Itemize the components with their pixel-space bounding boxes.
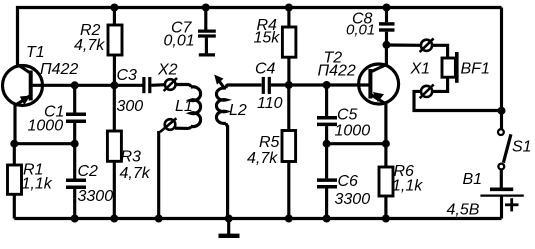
telephone BF1 <box>442 52 457 83</box>
node C7 top <box>202 4 210 12</box>
svg-text:C4: C4 <box>255 61 276 78</box>
node X2 return <box>155 215 163 223</box>
capacitor C5 <box>317 85 337 144</box>
connector X2 pin 1 <box>164 78 177 91</box>
node T2 collector <box>383 41 391 49</box>
node R4 top <box>285 4 293 12</box>
capacitor C7 <box>198 8 216 55</box>
svg-text:R5: R5 <box>259 134 280 151</box>
resistor R6 <box>379 144 393 219</box>
node switch feed <box>498 107 506 115</box>
node R2/R3 <box>110 81 118 89</box>
inductor L1 <box>175 85 201 129</box>
node R5 bottom <box>285 215 293 223</box>
node C6 bottom <box>323 215 331 223</box>
resistor R5 <box>282 85 296 219</box>
svg-text:4,7k: 4,7k <box>247 150 278 167</box>
node C5/C6 <box>323 140 331 148</box>
resistor R3 <box>107 85 121 218</box>
wire top supply rail <box>18 8 502 67</box>
capacitor C4 <box>263 77 288 94</box>
svg-text:0,01: 0,01 <box>164 33 195 50</box>
svg-text:1,1k: 1,1k <box>392 178 423 195</box>
wire T1 emitter row <box>14 142 74 145</box>
connector X1 pin 1 <box>420 38 434 52</box>
wire T1 base to C3 <box>31 84 143 87</box>
svg-text:15k: 15k <box>254 30 281 47</box>
transistor T1 <box>3 65 43 144</box>
resistor R4 <box>282 8 296 86</box>
capacitor C3 <box>144 77 165 93</box>
ground <box>219 219 240 236</box>
svg-text:1000: 1000 <box>28 118 64 135</box>
inductor L2 <box>216 85 227 219</box>
svg-text:T1: T1 <box>26 44 45 61</box>
node ground junction <box>225 215 233 223</box>
node T2 base divider <box>285 81 293 89</box>
svg-text:3300: 3300 <box>78 188 114 205</box>
node C5 top <box>323 81 331 89</box>
resistor R1 <box>8 144 22 219</box>
wire collector to X1 <box>387 43 422 46</box>
svg-text:S1: S1 <box>512 139 532 156</box>
capacitor C2 <box>66 144 86 219</box>
resistor R2 <box>108 8 122 86</box>
svg-text:L2: L2 <box>229 102 247 119</box>
svg-text:4,5В: 4,5В <box>447 202 480 219</box>
node C1 top <box>71 81 79 89</box>
svg-text:П422: П422 <box>318 63 356 80</box>
connector X2 pin 2 <box>159 118 177 218</box>
svg-text:C6: C6 <box>338 173 359 190</box>
node R2 top <box>110 4 118 12</box>
wire T2 emitter row <box>327 142 386 145</box>
svg-text:X2: X2 <box>157 62 178 79</box>
transistor T2 <box>359 45 399 144</box>
capacitor C6 <box>317 144 337 219</box>
node C1/C2 <box>71 140 79 148</box>
battery B1 <box>480 189 523 218</box>
svg-text:1000: 1000 <box>335 123 371 140</box>
wire right edge from rail to switch <box>500 8 503 130</box>
svg-text:3300: 3300 <box>335 191 371 208</box>
svg-text:BF1: BF1 <box>461 61 490 78</box>
wire L2 top to C4 <box>227 83 262 86</box>
node R3 bottom <box>110 215 118 223</box>
variable-core arrow for L2 <box>214 75 225 90</box>
node R6 bottom <box>382 215 390 223</box>
svg-text:4,7k: 4,7k <box>120 165 151 182</box>
node emitter T1 <box>10 140 18 148</box>
svg-text:110: 110 <box>257 95 283 112</box>
svg-text:C5: C5 <box>337 107 358 124</box>
svg-text:П422: П422 <box>40 61 78 78</box>
wire X1 return to switch node <box>414 91 502 110</box>
capacitor C1 <box>66 85 86 143</box>
svg-text:4,7k: 4,7k <box>74 37 105 54</box>
svg-text:300: 300 <box>117 98 144 115</box>
svg-text:B1: B1 <box>463 171 483 188</box>
wire BF1 to X1 pin 2 <box>433 77 448 91</box>
svg-text:X1: X1 <box>410 61 431 78</box>
svg-text:0,01: 0,01 <box>346 22 375 39</box>
svg-text:C3: C3 <box>117 67 138 84</box>
svg-text:R3: R3 <box>121 149 142 166</box>
capacitor C8 <box>379 8 395 45</box>
svg-text:C2: C2 <box>78 163 99 180</box>
wire X1 pin1 to BF1 <box>432 45 448 58</box>
switch S1 <box>498 129 511 187</box>
connector X1 pin 2 <box>420 85 434 99</box>
svg-text:1,1k: 1,1k <box>22 176 53 193</box>
node emitter T2 <box>382 140 390 148</box>
node C2 bottom <box>71 215 79 223</box>
wire bottom common rail <box>14 217 501 220</box>
svg-text:L1: L1 <box>175 98 193 115</box>
wire T2 base <box>289 83 369 86</box>
node C8 top <box>383 4 391 12</box>
